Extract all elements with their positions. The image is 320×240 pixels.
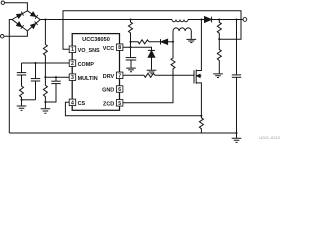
svg-text:8: 8 [118,45,121,51]
capacitor C6 (output bulk) [236,20,238,75]
inductor L1 (boost, main winding) [172,20,188,22]
node VCC/aux charge branch [129,41,131,43]
node comp branch [34,62,36,64]
pin 4 box [69,99,76,106]
svg-text:2: 2 [71,61,74,67]
svg-text:UCC38050: UCC38050 [82,37,110,43]
MOSFET Q1 body arrow [197,75,202,77]
node MULTIN tap [44,76,46,78]
resistor R8 (current sense) [199,116,203,133]
capacitor C5 (VCC) [126,57,137,59]
resistor R10 (output divider lower) [217,39,221,73]
resistor R6 (gate drive) [123,73,194,77]
wire J2 to bridge bottom [4,31,28,37]
svg-text:4: 4 [71,100,74,106]
resistor R1 (input divider upper) [43,45,47,78]
wire CS pin 4 to sense node [65,102,201,116]
node feedback tap [218,38,220,40]
bridge diode D3 (bottom-left edge) [17,22,24,29]
MOSFET Q1 channel bar [195,70,197,84]
resistor R4 (VCC startup) [129,20,133,42]
MOSFET Q1 gate bar [193,70,195,83]
capacitor C3 (across R2) [55,77,57,81]
ground output divider [213,74,223,78]
wire bridge minus (left vertex) to ground rail [9,20,12,134]
svg-text:5: 5 [118,101,121,107]
wire MULTIN tap to pin 3 [45,76,69,78]
node comp ground [20,99,22,101]
pin 6 box [116,86,123,93]
diode D7 (boost, pointing right) [205,17,212,23]
resistor R9 (output divider upper) [217,20,221,40]
pin 3 box [69,74,76,81]
svg-text:CS: CS [78,101,86,107]
MOSFET Q1 drain lead [196,20,201,71]
pin 5 box [116,100,123,107]
svg-text:6: 6 [118,87,121,93]
bridge rectifier diamond [12,11,40,31]
input terminal J1 (line) [1,1,4,4]
bridge diode D2 (top-right edge) [31,12,38,19]
svg-text:ZCD: ZCD [103,102,114,108]
svg-text:3: 3 [71,75,74,81]
node output cap [235,18,237,20]
node drain junction [200,18,202,20]
wire VO_SNS feedback rail A [63,11,241,50]
capacitor C1 (comp series RC) [21,63,23,73]
wire aux left leg [172,31,174,42]
node aux/VCC diode junction [172,41,174,43]
node rail B / input divider [44,18,46,20]
wire rectified rail B [40,19,172,21]
pin 7 box [116,72,123,79]
wire zener branch [131,47,152,50]
ground comp network [21,100,23,106]
ground VCC cap [126,68,136,72]
svg-text:COMP: COMP [78,62,95,68]
pin 8 box [116,44,123,51]
input terminal J2 (neutral) [1,35,4,38]
svg-text:GND: GND [102,88,114,94]
winding T1-aux (ZCD winding) [173,28,191,31]
node VCC/zener branch [129,46,131,48]
resistor R7 (ZCD) [171,42,175,70]
MOSFET Q1 source lead [196,83,201,116]
pin 1 box [69,46,76,53]
svg-text:VCC: VCC [103,46,115,52]
wire J1 to bridge top [4,3,27,11]
node CS / source sense [200,115,202,117]
svg-text:MULTIN: MULTIN [78,76,98,82]
bridge diode D1 (top-left edge) [17,12,24,19]
svg-text:VO_SNS: VO_SNS [78,48,100,54]
resistor R5 (VCC charge) [131,40,161,44]
node divider bottom [44,101,46,103]
wire VCC vertical + pin 8 lead [123,42,131,58]
svg-text:DRV: DRV [103,74,115,80]
node ground rail end [235,132,237,134]
resistor R3 (comp series RC) [20,75,24,100]
wire ZCD pin 5 [123,70,173,103]
node filter cap tap [55,76,57,78]
pin 2 box [69,60,76,67]
capacitor C2 (comp) [35,63,37,79]
output terminal [243,18,247,22]
diode D5 (VCC clamp, cathode up) [148,50,155,57]
diode D6 (VCC charge, cathode left) [161,39,168,44]
IC U1 UCC38050 body [72,34,119,111]
svg-text:7: 7 [118,73,121,79]
wire COMP network [22,62,70,64]
node output / divider top [218,18,220,20]
node rail B / startup resistor [129,18,131,20]
ground aux winding [186,39,196,42]
wire divider drop [44,20,46,45]
ground divider bottom [44,102,46,108]
ground rail (bottom) [9,132,236,134]
bridge diode D4 (bottom-right edge) [31,21,38,28]
ground rail earth symbol [236,133,238,138]
resistor R2 (input divider lower) [43,77,47,102]
ground VCC clamp [147,70,157,74]
svg-text:UDG–02129: UDG–02129 [259,135,280,140]
svg-text:1: 1 [71,47,74,53]
wire comp bottoms link [22,99,36,101]
